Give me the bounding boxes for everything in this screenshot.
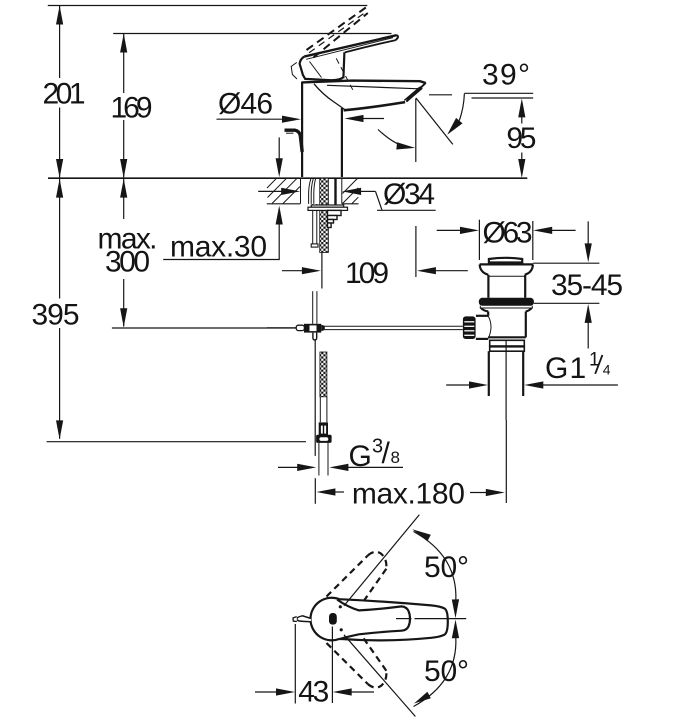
hose tube <box>319 397 321 422</box>
mounting flange <box>311 205 343 207</box>
svg-text:1: 1 <box>570 352 587 385</box>
dashed handle rotated down <box>327 637 387 687</box>
braided hose <box>320 352 327 397</box>
outlet tube <box>318 443 320 476</box>
node: 95 dimension line <box>518 98 525 178</box>
wire: lever top inner line <box>306 38 393 60</box>
wire: 50deg lower arc <box>414 637 456 707</box>
wire: 39deg arc <box>459 94 464 121</box>
check valve flange <box>316 435 332 443</box>
wire: spout front edge <box>406 83 426 102</box>
wire: 50deg upper arc <box>414 532 456 602</box>
supply hose with check valve <box>316 352 332 476</box>
drain flange <box>480 263 533 265</box>
node: O63 arrows <box>437 229 461 231</box>
pop-up rod knob <box>285 130 303 152</box>
wire: 39deg stream diagonal <box>416 98 453 144</box>
wire: 39deg underline <box>464 92 533 94</box>
aerator strip <box>407 87 422 100</box>
svg-text:4: 4 <box>603 362 611 378</box>
wire: 50deg upper diagonal reference <box>344 515 419 606</box>
wire: 169 top reference line <box>113 33 391 35</box>
svg-text:300: 300 <box>105 245 150 278</box>
wire: supply level line to tee <box>112 327 296 329</box>
svg-text:8: 8 <box>391 448 400 467</box>
node: G3/8 label <box>349 436 400 474</box>
supply hoses in hole <box>309 179 311 204</box>
svg-text:109: 109 <box>345 257 389 290</box>
svg-text:201: 201 <box>43 78 86 111</box>
wire: 50deg lower diagonal reference <box>344 635 415 717</box>
svg-text:Ø46: Ø46 <box>218 88 273 121</box>
pop-up tee assembly <box>267 291 463 456</box>
svg-text:Ø63: Ø63 <box>483 217 533 250</box>
wire: faucet centerline below shank <box>321 253 323 289</box>
svg-text:39°: 39° <box>482 59 530 92</box>
wire: horizontal centerline <box>396 618 412 620</box>
wire: body left edge <box>301 82 303 178</box>
band under seal <box>480 306 532 308</box>
dashed handle rotated up <box>327 552 387 602</box>
node: O34 dimension arrows at deck <box>258 188 436 211</box>
svg-text:50°: 50° <box>424 551 469 584</box>
lever handle raised dashed <box>307 8 368 58</box>
handle dots <box>339 605 342 608</box>
stopper cap <box>489 258 522 263</box>
tee bottom stub <box>313 333 317 340</box>
wire: aerator vertical reference <box>415 99 417 163</box>
check valve body <box>319 422 328 435</box>
wire: spout trough inner line <box>327 85 422 88</box>
solid handle outline <box>310 598 447 641</box>
svg-text:max.180: max.180 <box>352 477 465 510</box>
lever handle solid <box>291 35 398 90</box>
mounting bracket steps <box>328 210 342 215</box>
deck cross-section <box>267 178 359 253</box>
node: 169 dimension line <box>120 34 127 179</box>
node: 109 dimension <box>282 267 468 274</box>
node: 201 dimension line <box>56 6 63 179</box>
wire: body top edge and spout top edge <box>302 81 426 83</box>
node: G3/8 dimension arrows <box>278 464 403 471</box>
node: max.180 dimension <box>315 420 506 504</box>
wire: base inner diagonal <box>310 62 322 78</box>
wire: deck bottom line <box>267 203 301 205</box>
threaded stud <box>320 178 329 252</box>
svg-text:G: G <box>349 440 372 473</box>
wire: lever underside <box>345 40 396 52</box>
pop-up rod tab <box>297 616 311 622</box>
tee left stub <box>296 325 304 330</box>
svg-text:395: 395 <box>32 299 80 332</box>
node: O46 label and leader <box>217 88 385 123</box>
svg-text:95: 95 <box>506 122 536 155</box>
inner lever outline <box>337 600 410 639</box>
wire: base notch <box>291 62 297 79</box>
wire: raised lever lower edge <box>314 13 368 58</box>
svg-text:Ø34: Ø34 <box>383 178 435 211</box>
node: G1 1/4 label <box>545 350 611 385</box>
wire: hidden cartridge dashed line <box>336 58 353 90</box>
drain pop-up waste assembly <box>437 217 576 421</box>
wire: basin curve <box>314 84 345 110</box>
tee right connector <box>321 325 325 332</box>
knurled knob <box>463 316 476 339</box>
node: 43 dimension <box>255 624 374 704</box>
wire: lever base bottom <box>300 57 344 81</box>
wire: rod pipe above tee <box>312 291 314 324</box>
wire: 201 top reference line <box>48 5 368 7</box>
svg-text:35-45: 35-45 <box>551 269 623 302</box>
wire: hole edges <box>300 178 302 204</box>
wire: raised lever mid edge <box>309 12 367 53</box>
wire: lever tip <box>396 35 398 40</box>
wire: spout underside <box>344 102 406 110</box>
svg-text:G: G <box>545 352 568 385</box>
drain neck <box>487 275 489 298</box>
wire: rod centerline <box>314 340 316 456</box>
wire: drain centerline <box>505 340 507 420</box>
faucet body outline <box>302 81 426 177</box>
node: max.30 dimension <box>163 137 283 259</box>
node: 395 dimension line <box>56 179 63 440</box>
wire: countertop line <box>48 177 527 179</box>
svg-text:max.30: max.30 <box>170 231 267 264</box>
tailpipe <box>488 351 490 396</box>
node: O63 extension lines <box>478 220 480 260</box>
node: G1 1/4 dimension arrows <box>446 381 618 388</box>
wire: body right edge <box>341 108 343 177</box>
deck hatching <box>267 178 358 203</box>
svg-text:43: 43 <box>298 676 329 709</box>
wire: line left of tee <box>267 327 296 329</box>
drain body bottom <box>488 336 526 338</box>
wire: horizontal ref through aerator <box>429 94 452 96</box>
wire: lever neck front <box>343 52 344 78</box>
rubber seal ring <box>479 298 534 306</box>
drain body <box>487 312 489 316</box>
threaded collar <box>490 340 525 346</box>
right tube <box>334 179 336 205</box>
node: max.300 dimension line <box>120 179 127 328</box>
svg-text:50°: 50° <box>424 655 469 688</box>
node: 35-45 dimension <box>533 221 599 348</box>
wire: raised lever upper edge <box>307 8 366 51</box>
plan view (top view of handle) <box>293 515 466 717</box>
tee body <box>304 324 321 333</box>
wire: bottom reference line at hose end <box>47 441 306 443</box>
wire: spout outlet extension line <box>415 226 417 277</box>
wire: lever top edge <box>304 35 396 56</box>
handle front pill <box>329 613 337 625</box>
actuator boss <box>476 315 488 317</box>
svg-text:169: 169 <box>111 92 153 125</box>
wire: horizontal pop-up rod <box>325 325 463 327</box>
svg-text:/: / <box>382 437 391 470</box>
wire: swivel arc <box>378 130 409 148</box>
